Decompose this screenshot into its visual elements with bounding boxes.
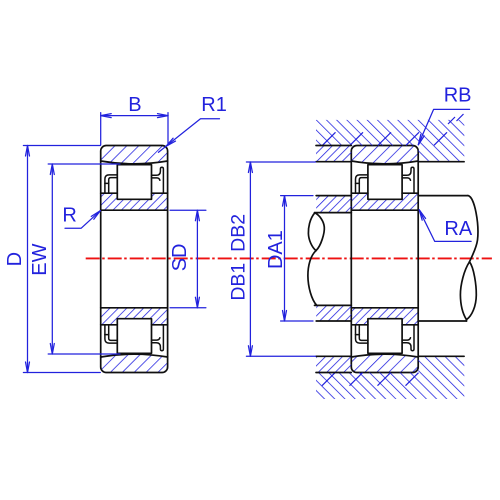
svg-text:EW: EW (29, 243, 51, 275)
svg-text:DA1: DA1 (265, 230, 287, 269)
svg-text:DB1 DB2: DB1 DB2 (227, 214, 249, 301)
svg-text:SD: SD (169, 244, 191, 272)
svg-text:R1: R1 (201, 94, 227, 116)
svg-text:B: B (128, 94, 141, 116)
svg-text:R: R (62, 204, 76, 226)
svg-text:RB: RB (444, 84, 472, 106)
svg-text:RA: RA (444, 218, 472, 240)
svg-text:D: D (4, 252, 26, 266)
